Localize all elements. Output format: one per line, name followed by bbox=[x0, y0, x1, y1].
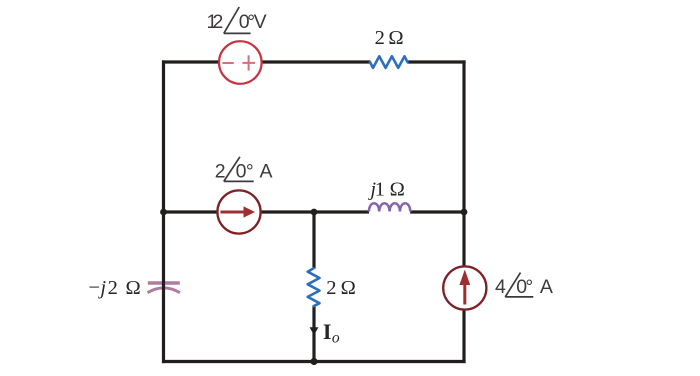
svg-text:I: I bbox=[323, 319, 332, 344]
wire middle-left segment bbox=[162, 210, 217, 213]
voltage source V 12∠0°V bbox=[219, 41, 262, 84]
wire top-middle segment bbox=[262, 60, 370, 63]
svg-text:Ω: Ω bbox=[388, 27, 403, 49]
label 2∠0° A bbox=[215, 157, 273, 183]
current source 2∠0° A bbox=[217, 190, 260, 233]
label 4∠0° A bbox=[495, 273, 553, 298]
wire left vertical bbox=[162, 60, 165, 363]
wire center vertical upper bbox=[312, 212, 315, 269]
arrow Io bbox=[310, 327, 319, 335]
wire center vertical lower bbox=[312, 305, 315, 363]
node center-middle junction bbox=[311, 209, 318, 216]
wire top-left segment bbox=[162, 60, 219, 63]
node right-middle junction bbox=[461, 209, 468, 216]
svg-text:1: 1 bbox=[375, 179, 385, 201]
resistor 2Ω top bbox=[370, 56, 408, 68]
label −j2 Ω bbox=[89, 277, 141, 299]
wire top-right segment bbox=[407, 60, 465, 63]
wire right vertical lower bbox=[462, 310, 465, 363]
svg-text:2: 2 bbox=[375, 27, 385, 49]
svg-text:Ω: Ω bbox=[390, 179, 405, 201]
label Io bbox=[323, 319, 340, 347]
svg-text:o: o bbox=[332, 330, 340, 347]
svg-text:V: V bbox=[254, 11, 267, 33]
svg-text:12: 12 bbox=[207, 11, 224, 33]
wire middle-right segment bbox=[410, 210, 465, 213]
svg-text:A: A bbox=[540, 276, 553, 298]
svg-text:2: 2 bbox=[326, 277, 336, 299]
current source 4∠0° A bbox=[443, 266, 486, 309]
wire right vertical upper bbox=[462, 60, 465, 266]
inductor j1Ω bbox=[369, 203, 410, 211]
svg-text:2: 2 bbox=[108, 277, 118, 299]
svg-text:2: 2 bbox=[215, 160, 226, 182]
label 12∠0°V bbox=[207, 7, 267, 33]
label j1 Ω bbox=[367, 179, 404, 201]
label 2 Ω (middle resistor) bbox=[326, 277, 356, 299]
svg-text:A: A bbox=[260, 160, 273, 182]
node bottom junction bbox=[310, 358, 317, 365]
resistor 2Ω middle vertical bbox=[308, 268, 320, 306]
wire bottom segment bbox=[162, 360, 466, 363]
capacitor -j2Ω bbox=[148, 283, 180, 293]
svg-text:Ω: Ω bbox=[341, 277, 356, 299]
svg-text:°: ° bbox=[246, 160, 254, 182]
label 2 Ω (top resistor) bbox=[375, 27, 404, 49]
svg-text:°: ° bbox=[525, 276, 533, 298]
wire middle-center segment bbox=[261, 210, 369, 213]
svg-text:Ω: Ω bbox=[126, 277, 141, 299]
node left-middle junction bbox=[160, 209, 167, 216]
svg-text:4: 4 bbox=[495, 276, 506, 298]
svg-text:−: − bbox=[89, 277, 101, 299]
